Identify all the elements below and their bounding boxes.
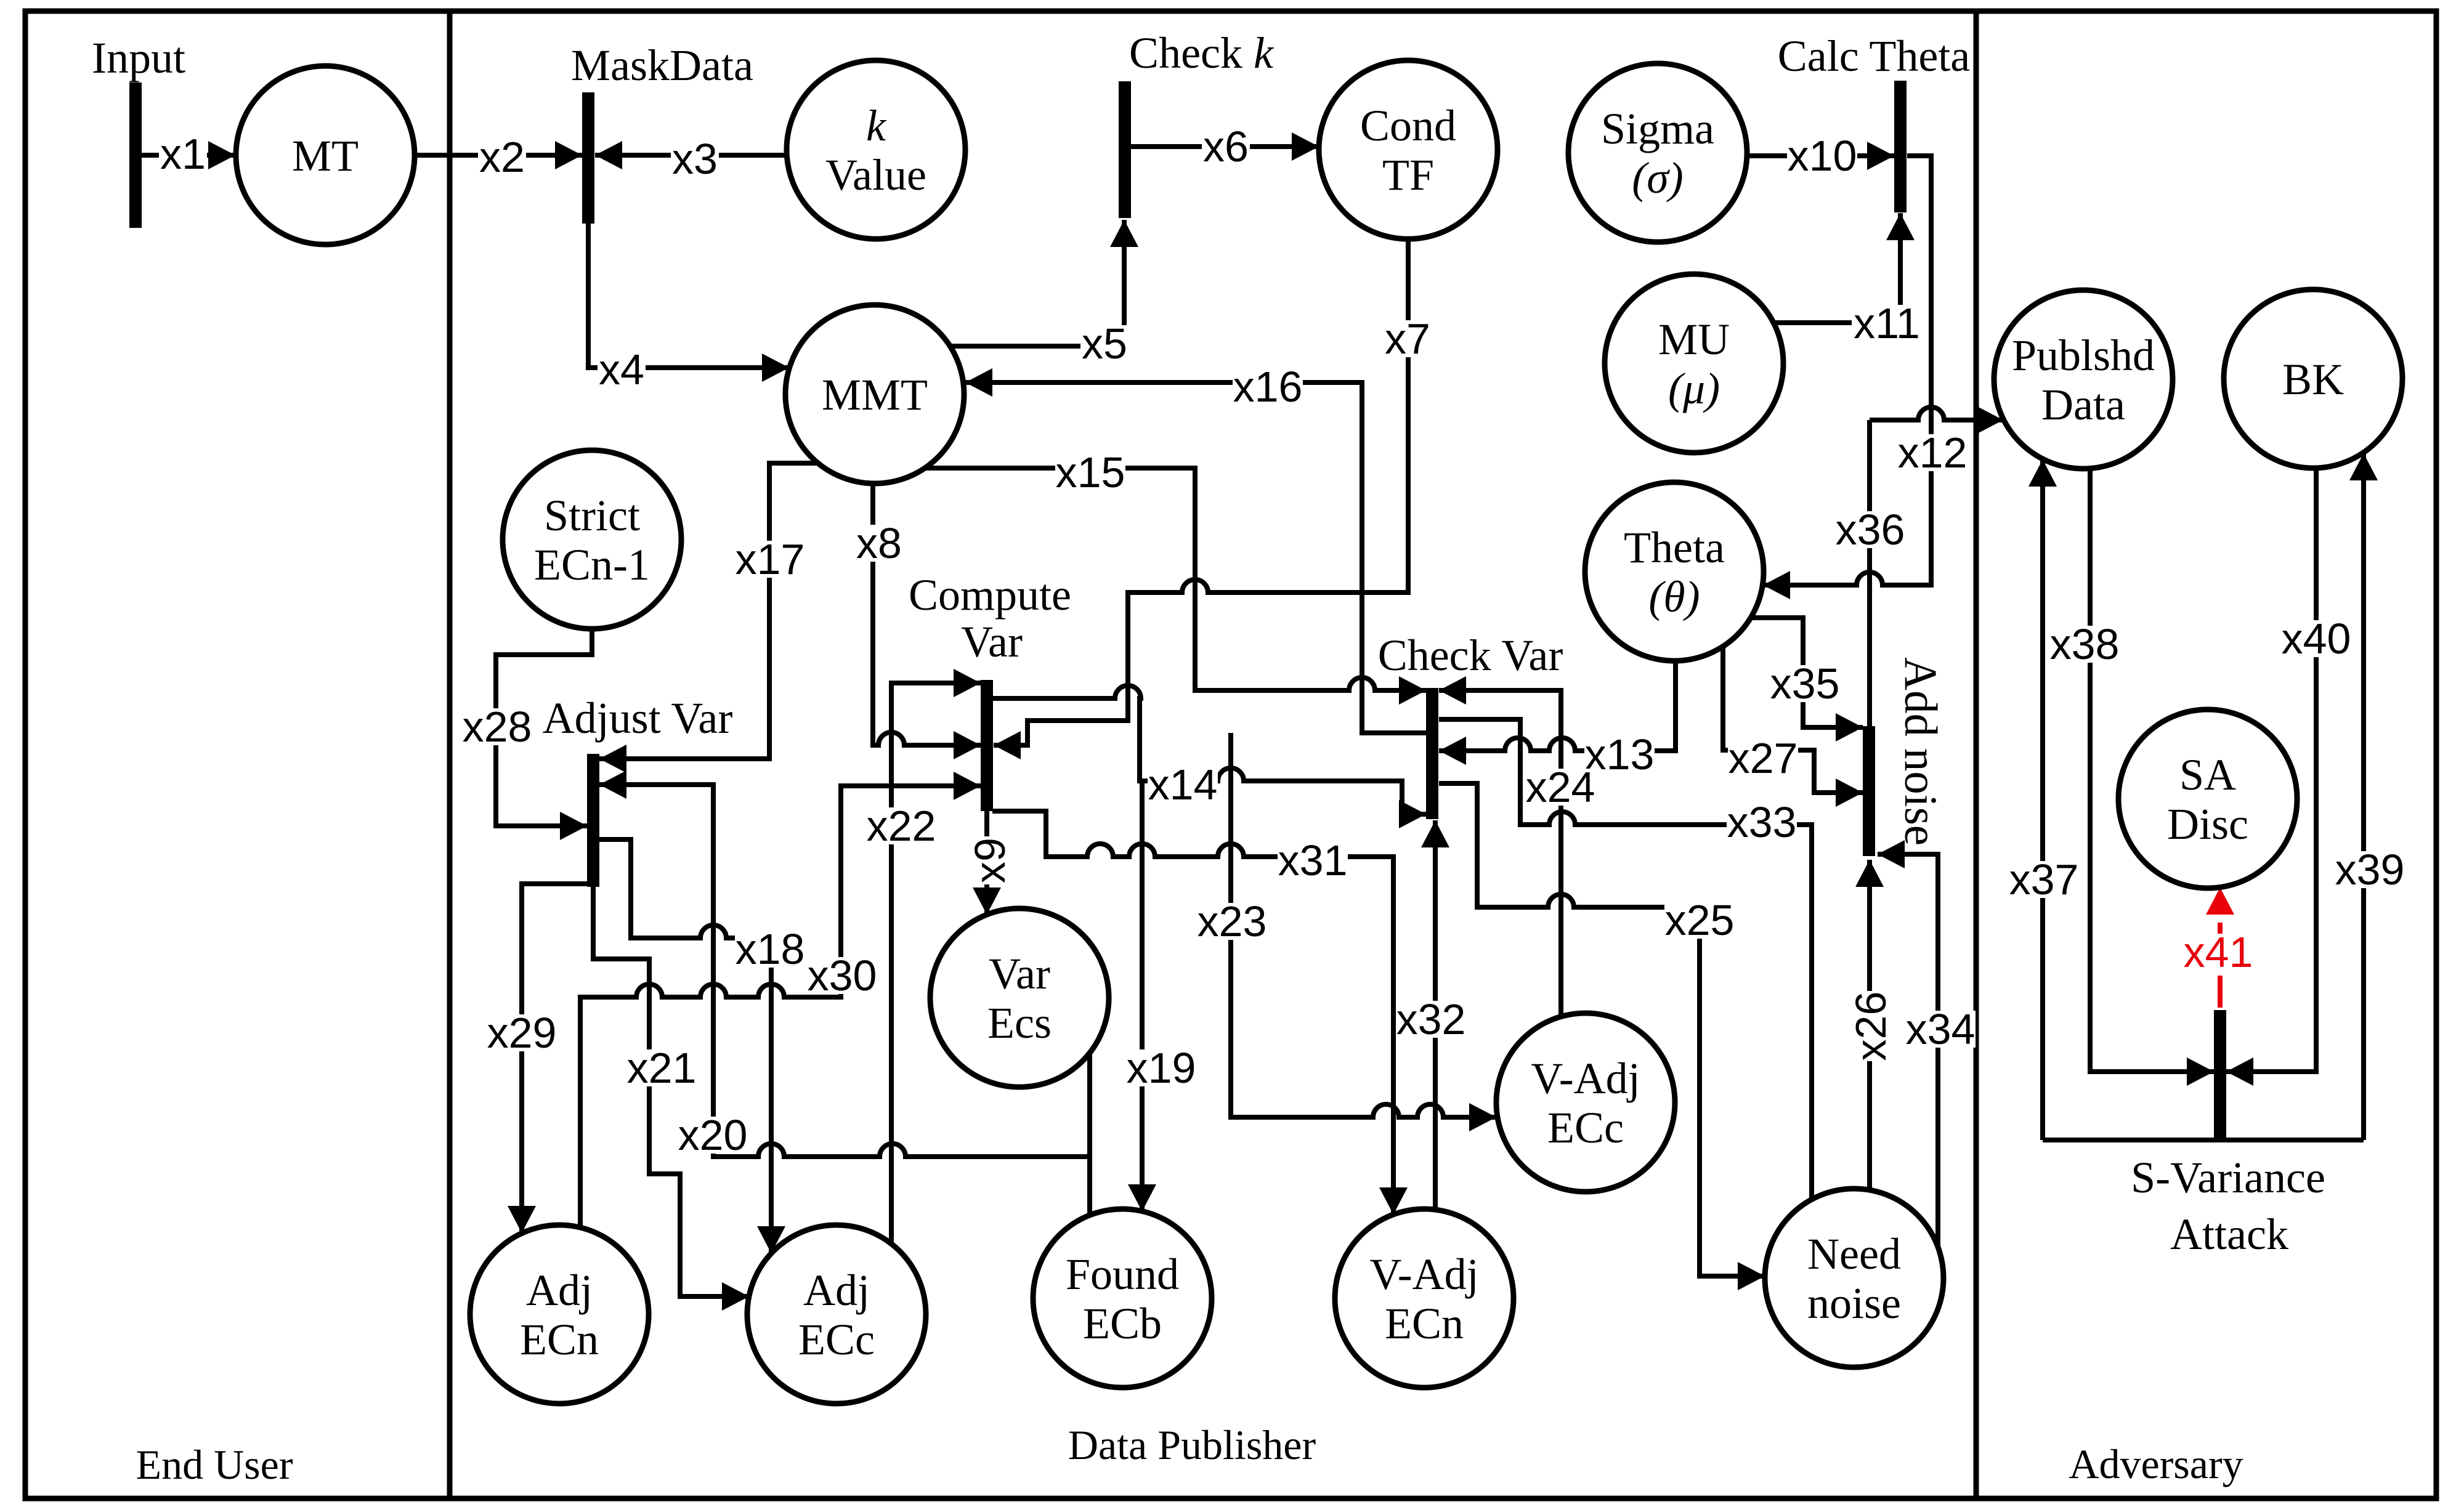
svg-text:Found: Found [1066, 1250, 1179, 1299]
svg-text:Adj: Adj [803, 1266, 870, 1315]
svg-text:Ecs: Ecs [987, 998, 1052, 1048]
svg-text:Input: Input [92, 33, 185, 83]
svg-text:ECb: ECb [1083, 1299, 1162, 1348]
svg-text:x35: x35 [1770, 660, 1840, 708]
svg-text:Add noise: Add noise [1895, 657, 1946, 846]
svg-text:Need: Need [1807, 1229, 1901, 1279]
svg-text:Strict: Strict [544, 491, 640, 540]
svg-text:V-Adj: V-Adj [1531, 1054, 1640, 1103]
svg-text:ECc: ECc [1547, 1103, 1624, 1152]
svg-text:SA: SA [2179, 750, 2236, 799]
svg-text:ECn: ECn [1385, 1299, 1464, 1348]
svg-text:Disc: Disc [2167, 799, 2248, 849]
svg-text:ECc: ECc [798, 1315, 875, 1364]
svg-text:x7: x7 [1385, 315, 1430, 363]
svg-text:x2: x2 [479, 133, 525, 181]
svg-text:x40: x40 [2282, 615, 2351, 663]
svg-text:x38: x38 [2050, 620, 2120, 668]
svg-text:Calc Theta: Calc Theta [1778, 31, 1971, 81]
svg-text:x20: x20 [678, 1111, 748, 1159]
svg-text:x28: x28 [463, 703, 532, 751]
svg-text:MU: MU [1658, 315, 1730, 364]
svg-text:Check k: Check k [1129, 28, 1275, 78]
svg-text:S-Variance: S-Variance [2131, 1153, 2325, 1202]
svg-text:x16: x16 [1233, 363, 1303, 411]
svg-text:End User: End User [136, 1441, 293, 1488]
svg-text:x5: x5 [1082, 320, 1127, 368]
svg-text:Check Var: Check Var [1378, 631, 1563, 680]
svg-text:x4: x4 [599, 346, 644, 394]
svg-text:BK: BK [2282, 355, 2344, 404]
svg-text:Compute: Compute [909, 570, 1071, 620]
svg-text:Data: Data [2041, 380, 2125, 429]
svg-text:Var: Var [961, 617, 1023, 666]
svg-text:x12: x12 [1898, 429, 1968, 477]
svg-text:k: k [866, 101, 887, 150]
svg-text:V-Adj: V-Adj [1369, 1250, 1478, 1299]
svg-text:x11: x11 [1854, 299, 1920, 347]
svg-text:x23: x23 [1198, 897, 1267, 945]
svg-text:MaskData: MaskData [571, 41, 753, 90]
svg-text:x14: x14 [1148, 761, 1218, 809]
svg-text:MMT: MMT [822, 370, 928, 419]
svg-text:x15: x15 [1056, 448, 1125, 496]
svg-text:(μ): (μ) [1668, 364, 1720, 413]
svg-text:x31: x31 [1278, 836, 1348, 884]
svg-text:x37: x37 [2009, 855, 2079, 904]
svg-text:Attack: Attack [2170, 1210, 2288, 1259]
svg-text:ECn: ECn [520, 1315, 599, 1364]
svg-text:x21: x21 [627, 1044, 697, 1092]
svg-text:x22: x22 [867, 802, 936, 850]
svg-text:x33: x33 [1727, 798, 1797, 846]
svg-text:x25: x25 [1665, 896, 1735, 944]
svg-text:x8: x8 [856, 519, 902, 567]
svg-text:x34: x34 [1906, 1005, 1976, 1053]
svg-text:x6: x6 [1203, 123, 1249, 171]
svg-text:Publshd: Publshd [2012, 331, 2155, 380]
svg-text:x24: x24 [1526, 763, 1595, 811]
svg-text:x18: x18 [736, 925, 805, 973]
svg-text:Theta: Theta [1624, 523, 1725, 572]
svg-text:(σ): (σ) [1632, 153, 1683, 203]
svg-text:x32: x32 [1396, 995, 1466, 1043]
svg-text:Var: Var [989, 949, 1050, 998]
svg-text:x3: x3 [672, 135, 718, 183]
svg-text:Value: Value [825, 150, 926, 200]
svg-text:x9: x9 [966, 838, 1014, 883]
svg-text:x41: x41 [2184, 928, 2253, 976]
svg-text:x29: x29 [487, 1009, 557, 1057]
svg-text:x19: x19 [1127, 1044, 1196, 1092]
svg-text:x36: x36 [1836, 506, 1905, 554]
svg-text:x39: x39 [2335, 846, 2405, 894]
svg-text:Adj: Adj [526, 1266, 593, 1315]
svg-text:x27: x27 [1729, 734, 1798, 782]
svg-text:Sigma: Sigma [1601, 104, 1714, 153]
svg-text:ECn-1: ECn-1 [534, 540, 650, 589]
svg-text:Data Publisher: Data Publisher [1068, 1421, 1316, 1468]
svg-text:Adjust Var: Adjust Var [543, 693, 733, 743]
svg-text:MT: MT [292, 131, 359, 180]
svg-text:TF: TF [1382, 150, 1434, 200]
svg-text:x30: x30 [808, 952, 877, 1000]
svg-text:(θ): (θ) [1648, 572, 1700, 621]
svg-text:Cond: Cond [1360, 101, 1456, 150]
svg-text:x26: x26 [1847, 992, 1895, 1061]
svg-text:x10: x10 [1788, 132, 1857, 180]
svg-text:Adversary: Adversary [2069, 1441, 2243, 1487]
svg-text:x1: x1 [160, 130, 206, 178]
svg-text:noise: noise [1807, 1279, 1901, 1328]
svg-text:x17: x17 [736, 535, 805, 583]
